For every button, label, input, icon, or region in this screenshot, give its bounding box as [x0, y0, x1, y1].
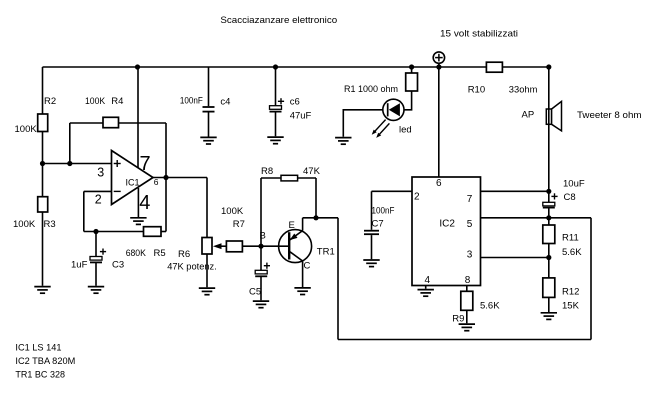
- svg-text:Scacciazanzare elettronico: Scacciazanzare elettronico: [220, 15, 337, 26]
- svg-text:2: 2: [414, 191, 420, 202]
- ground under TR1 collector: [294, 288, 310, 295]
- wire feedback loop right vertical: [590, 218, 592, 340]
- junction dot node B: [258, 244, 263, 249]
- ground under c4: [200, 137, 216, 144]
- wire feedback loop left vertical: [337, 218, 339, 340]
- svg-text:IC1: IC1: [126, 178, 140, 188]
- svg-text:7: 7: [140, 153, 151, 175]
- svg-text:C: C: [304, 261, 311, 272]
- wire IC2 pin5 to loop: [481, 217, 592, 219]
- junction dot C3 node: [93, 229, 98, 234]
- wire R11 top: [548, 218, 550, 225]
- junction dot output node: [163, 175, 168, 180]
- ground under led: [335, 138, 351, 145]
- capacitor C8: [543, 193, 558, 207]
- wire C5 bottom to ground: [260, 276, 262, 300]
- ground under R3: [34, 287, 50, 294]
- ground under R9: [459, 324, 475, 331]
- wire IC2 pin4 stub: [425, 286, 427, 289]
- resistor R5: [144, 227, 162, 237]
- svg-text:8: 8: [465, 275, 471, 286]
- svg-text:6: 6: [436, 178, 442, 189]
- wire pot R6 bottom to ground: [206, 254, 208, 287]
- svg-text:33ohm: 33ohm: [509, 84, 538, 95]
- wire C8 bottom: [548, 208, 550, 218]
- junction dot rail supply: [436, 64, 441, 69]
- wire speaker vertical: [548, 67, 550, 191]
- junction dot C8 bottom: [546, 215, 551, 220]
- wire IC2 pin8 to R9: [466, 286, 468, 292]
- junction dot rail pin7: [135, 64, 140, 69]
- svg-text:C8: C8: [564, 192, 576, 203]
- svg-text:100K: 100K: [13, 219, 36, 230]
- svg-text:IC2: IC2: [439, 219, 455, 230]
- svg-text:4: 4: [139, 192, 150, 214]
- op-amp plus input mark: [114, 160, 121, 167]
- svg-text:C3: C3: [112, 260, 124, 271]
- svg-text:5.6K: 5.6K: [562, 247, 582, 258]
- capacitor C7: [364, 231, 379, 235]
- svg-text:R7: R7: [233, 219, 245, 230]
- wire c6 bottom to ground: [275, 112, 277, 136]
- svg-text:R3: R3: [44, 219, 56, 230]
- wire C3 top: [95, 232, 97, 257]
- wire opamp pin7 supply: [137, 67, 139, 168]
- svg-text:c6: c6: [290, 97, 300, 108]
- ground under C7: [363, 260, 379, 267]
- wire R11 bottom to node: [548, 244, 550, 258]
- svg-text:100K: 100K: [15, 124, 38, 135]
- led D1: [383, 99, 404, 120]
- ground under R12: [541, 313, 557, 320]
- capacitor c4: [203, 107, 215, 112]
- resistor R4: [103, 117, 119, 127]
- ground op-amp pin4: [130, 218, 146, 225]
- junction dot rail speaker: [546, 64, 551, 69]
- led arrow 1: [372, 120, 386, 135]
- wire node B vertical R8 to C5: [260, 178, 262, 270]
- svg-text:R1 1000 ohm: R1 1000 ohm: [344, 84, 398, 95]
- wire node pin3 horizontal: [43, 163, 112, 165]
- wire top supply rail: [43, 66, 549, 68]
- junction dot node pin3 R4: [67, 161, 72, 166]
- wire c4 top: [208, 67, 210, 106]
- wire feedback loop bottom: [338, 339, 591, 341]
- svg-text:6: 6: [154, 177, 159, 187]
- svg-text:5.6K: 5.6K: [480, 301, 500, 312]
- junction dot node pin3 left: [40, 161, 45, 166]
- wire R4 right vertical to output: [165, 123, 167, 178]
- ground under pot R6: [199, 288, 215, 295]
- wire R9 bottom to ground: [466, 310, 468, 323]
- svg-text:2: 2: [95, 192, 102, 206]
- junction dot rail R1: [409, 64, 414, 69]
- svg-text:R11: R11: [562, 233, 579, 244]
- svg-text:c4: c4: [220, 97, 230, 108]
- wire plus symbol stub: [438, 63, 440, 67]
- resistor R2: [38, 114, 48, 132]
- wire pin2 bottom horizontal to R5: [84, 231, 144, 233]
- supply plus terminal symbol: [433, 52, 444, 63]
- wire base of TR1: [261, 245, 289, 247]
- op-amp minus input mark: [114, 190, 121, 192]
- svg-text:R8: R8: [261, 166, 273, 177]
- wire IC2 pin3 to divider: [481, 257, 549, 259]
- svg-text:100nF: 100nF: [180, 96, 203, 107]
- wire opamp pin2 horizontal: [84, 190, 112, 192]
- svg-text:C5: C5: [249, 287, 261, 298]
- svg-text:TR1 BC 328: TR1 BC 328: [15, 370, 65, 381]
- wire C7 top vertical: [371, 191, 373, 230]
- resistor R12: [543, 278, 555, 298]
- svg-text:3: 3: [467, 249, 473, 260]
- capacitor c6: [270, 98, 285, 111]
- wire c4 bottom to ground: [208, 112, 210, 136]
- svg-text:7: 7: [467, 194, 473, 205]
- svg-text:47uF: 47uF: [290, 111, 312, 122]
- ground under c6: [267, 137, 283, 144]
- capacitor C3: [90, 249, 106, 263]
- wire R8 right vertical to emitter node: [315, 178, 317, 218]
- wire collector vertical to ground: [302, 261, 304, 287]
- resistor R11: [543, 225, 555, 244]
- svg-text:5: 5: [467, 219, 473, 230]
- svg-text:Tweeter 8 ohm: Tweeter 8 ohm: [577, 110, 642, 121]
- svg-text:R12: R12: [562, 287, 579, 298]
- wire R12 bottom to ground: [548, 297, 550, 312]
- resistor R9: [461, 291, 473, 310]
- resistor R7: [226, 241, 242, 252]
- junction dot C8 top: [546, 189, 551, 194]
- op-amp U1 IC1 triangle: [112, 151, 154, 205]
- svg-text:15 volt stabilizzati: 15 volt stabilizzati: [440, 29, 518, 40]
- svg-text:AP: AP: [522, 110, 535, 121]
- wire output node down to R5: [165, 178, 167, 232]
- svg-text:R6: R6: [178, 249, 190, 260]
- svg-text:3: 3: [97, 165, 104, 179]
- junction dot rail c6: [273, 64, 278, 69]
- svg-text:R9: R9: [452, 314, 464, 325]
- resistor R8: [281, 175, 298, 181]
- svg-text:led: led: [399, 125, 412, 136]
- wire R1 bottom to led: [404, 91, 412, 110]
- wire R4 left vertical: [69, 123, 71, 164]
- wire R7 right to node B: [242, 245, 261, 247]
- resistor R3: [38, 197, 48, 212]
- ground under C5: [253, 301, 269, 308]
- svg-text:47K potenz.: 47K potenz.: [167, 262, 217, 273]
- wire R3 bottom to ground: [42, 212, 44, 286]
- wire R12 top: [548, 258, 550, 278]
- transistor Q1 TR1: [279, 230, 312, 263]
- svg-text:680K: 680K: [126, 248, 147, 259]
- wire pin2 left vertical: [83, 191, 85, 231]
- wire IC2 pin2 horizontal: [372, 190, 413, 192]
- svg-text:TR1: TR1: [317, 247, 335, 258]
- svg-text:1uF: 1uF: [71, 260, 88, 271]
- wire R2 bottom to R3 top: [42, 132, 44, 197]
- wire R8 left horizontal: [261, 177, 281, 179]
- svg-text:E: E: [289, 220, 295, 231]
- wire R8 right horizontal: [298, 177, 316, 179]
- junction dot divider node: [546, 255, 551, 260]
- svg-text:47K: 47K: [303, 166, 321, 177]
- wire R1 top: [411, 67, 413, 73]
- led arrow 2: [376, 123, 389, 137]
- wire C3 bottom to ground: [95, 262, 97, 285]
- svg-text:C7: C7: [372, 219, 384, 230]
- wire output down to pot R6: [206, 178, 208, 238]
- svg-text:B: B: [260, 231, 266, 242]
- wire C8 top: [548, 191, 550, 202]
- svg-text:4: 4: [425, 275, 431, 286]
- ground IC2 pin4: [418, 290, 434, 297]
- svg-text:100K: 100K: [221, 206, 244, 217]
- svg-text:10uF: 10uF: [563, 179, 585, 190]
- svg-text:IC2 TBA 820M: IC2 TBA 820M: [15, 356, 75, 367]
- junction dot emitter node: [313, 215, 318, 220]
- ground under C3: [88, 287, 104, 294]
- wire R4 right horizontal: [119, 122, 167, 124]
- wire R5 right to output node: [161, 231, 166, 233]
- wire emitter vertical: [302, 218, 304, 231]
- svg-text:R4: R4: [111, 96, 123, 107]
- speaker AP tweeter: [546, 101, 561, 130]
- svg-text:100nF: 100nF: [372, 206, 395, 217]
- svg-text:R10: R10: [468, 84, 485, 95]
- resistor R1: [406, 73, 418, 91]
- wire opamp output: [153, 177, 207, 179]
- svg-text:100K: 100K: [85, 96, 106, 107]
- IC U2 IC2 box: [412, 177, 481, 286]
- svg-text:15K: 15K: [562, 301, 580, 312]
- wire IC2 pin7 to C8: [481, 190, 549, 192]
- wire C7 bottom to ground: [371, 235, 373, 259]
- wire led left to ground: [343, 110, 383, 137]
- svg-text:R5: R5: [154, 248, 166, 259]
- svg-text:IC1 LS 141: IC1 LS 141: [15, 342, 61, 353]
- wire emitter node horizontal: [303, 217, 338, 219]
- wire c6 top: [275, 67, 277, 106]
- wire IC2 pin6 supply: [438, 67, 440, 177]
- svg-text:R2: R2: [44, 96, 56, 107]
- wire opamp pin4 to ground: [137, 188, 139, 217]
- capacitor C5: [255, 263, 270, 277]
- wire R4 left horizontal: [70, 122, 103, 124]
- wire left rail down to R2: [42, 67, 44, 114]
- resistor R10: [486, 62, 502, 72]
- potentiometer R6: [202, 238, 226, 255]
